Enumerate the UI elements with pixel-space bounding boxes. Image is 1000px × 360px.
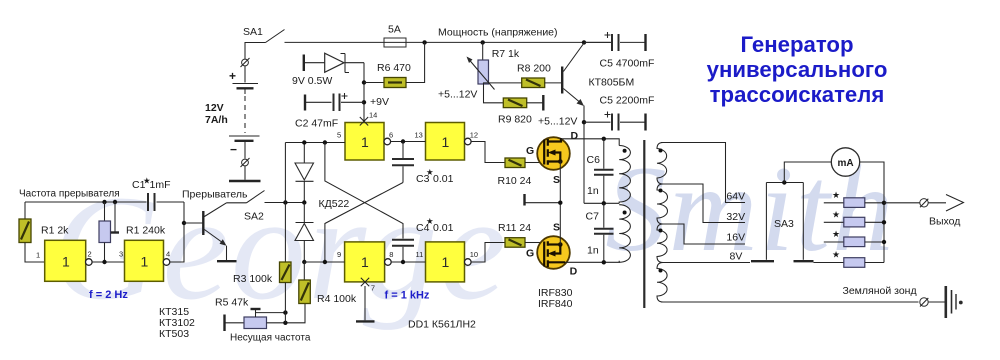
svg-text:R6 470: R6 470 — [377, 62, 411, 74]
title Генератор универсального трассоискателя — [707, 32, 888, 107]
svg-text:10: 10 — [470, 250, 478, 259]
svg-text:★: ★ — [832, 210, 840, 220]
svg-text:C2 47mF: C2 47mF — [295, 118, 338, 130]
junction C6 bottom / C7 top — [602, 201, 606, 205]
svg-text:1: 1 — [141, 254, 149, 270]
svg-text:Несущая частота: Несущая частота — [230, 333, 311, 344]
svg-text:R9 820: R9 820 — [498, 114, 532, 126]
wire secondary top tap to 64V contact — [661, 143, 745, 203]
svg-text:+5...12V: +5...12V — [538, 116, 577, 128]
switch SA1 — [243, 26, 285, 59]
junction SA2 wire / R3 — [283, 200, 287, 204]
wire collector to SA2 — [227, 202, 247, 204]
MOSFET VT4 IRF840 (bottom) — [526, 222, 578, 278]
gate DD1.2 — [119, 240, 170, 281]
wire SA2 to diode node — [265, 202, 305, 204]
svg-text:R7 1k: R7 1k — [492, 48, 520, 60]
svg-text:3: 3 — [119, 250, 123, 259]
svg-text:mA: mA — [837, 158, 853, 169]
transformer T1 primary winding upper half — [619, 146, 630, 204]
svg-text:+: + — [229, 69, 236, 83]
junction bus / output — [882, 201, 886, 205]
transformer T1 secondary section 3 — [657, 224, 667, 263]
svg-text:R1 240k: R1 240k — [126, 225, 166, 237]
wire battery dashed middle — [244, 89, 246, 94]
svg-text:2: 2 — [88, 250, 92, 259]
capacitor C7 1n — [586, 203, 614, 262]
resistor R3 100k — [233, 143, 291, 323]
svg-text:G: G — [526, 145, 534, 157]
wire cross-coupling pin5 to C4 — [325, 143, 403, 239]
junction SA3 top / meter — [782, 180, 786, 184]
svg-text:8V: 8V — [730, 251, 743, 263]
battery cell 2 — [229, 136, 260, 159]
svg-text:★: ★ — [832, 190, 840, 200]
svg-text:12: 12 — [470, 131, 478, 140]
svg-text:−: − — [230, 143, 237, 157]
diode VD1 KD522 — [295, 143, 314, 203]
pin 7 X mark and ground — [356, 278, 375, 322]
wire center tap — [584, 202, 619, 204]
switch SA3 — [751, 183, 814, 262]
transistor VT2 KT805BM — [562, 43, 634, 106]
junction C4 bottom — [401, 260, 405, 264]
wire 2Hz top rail y=202 — [25, 201, 147, 203]
junction rail/R6 — [422, 40, 426, 44]
svg-text:f = 2 Hz: f = 2 Hz — [89, 289, 128, 301]
svg-text:DD1 К561ЛН2: DD1 К561ЛН2 — [408, 319, 476, 331]
svg-text:6: 6 — [389, 131, 393, 140]
svg-text:R11 24: R11 24 — [498, 222, 531, 234]
svg-text:C7: C7 — [586, 211, 600, 223]
resistor R6 470 — [364, 42, 425, 87]
svg-text:КТ805БМ: КТ805БМ — [589, 77, 635, 89]
junction bus r3 — [882, 240, 886, 244]
svg-text:SA2: SA2 — [244, 211, 264, 223]
wire gate2 out to interrupter base — [170, 202, 184, 262]
resistor Rout4 — [814, 250, 885, 268]
resistor Rout3 — [824, 229, 884, 247]
capacitor C4 0.01 — [392, 216, 454, 262]
junction emitter/C5-2200 — [582, 120, 586, 124]
svg-text:R5 47k: R5 47k — [215, 297, 249, 309]
connector plug top of battery — [241, 58, 250, 67]
junction C3 bottom / pin9 — [323, 260, 327, 264]
junction bus r2 — [882, 220, 886, 224]
wire secondary bottom to ground probe — [661, 301, 919, 303]
connector ground probe — [920, 298, 945, 307]
svg-text:1n: 1n — [587, 245, 599, 257]
junction diode chain / pin9 wire — [302, 260, 306, 264]
svg-text:SA1: SA1 — [243, 26, 263, 38]
switch SA2 — [244, 191, 265, 223]
wire gate5 out to gate6 in — [391, 261, 426, 263]
wire drain VT4 to primary bottom — [565, 261, 619, 263]
labels IRF830 IRF840 — [538, 287, 573, 310]
battery GB1 12V 7A/h cell 1 — [229, 66, 258, 88]
capacitor C2 47mF — [295, 93, 364, 130]
meter PA1 mA — [831, 148, 859, 176]
svg-text:S: S — [553, 174, 560, 186]
svg-text:8: 8 — [389, 250, 393, 259]
svg-text:D: D — [571, 130, 579, 142]
svg-text:R10 24: R10 24 — [498, 175, 532, 187]
wire power rail (Мощность) y=42.4 — [285, 41, 612, 43]
capacitor C5 4700mF — [584, 32, 654, 70]
resistor Rout1 — [824, 190, 884, 207]
transformer core — [643, 140, 645, 308]
transistor VT1 interrupter — [182, 189, 248, 246]
svg-text:трассоискателя: трассоискателя — [710, 82, 885, 107]
svg-text:4: 4 — [166, 250, 170, 259]
svg-text:Прерыватель: Прерыватель — [182, 189, 248, 201]
svg-text:S: S — [553, 222, 560, 234]
svg-text:9: 9 — [337, 250, 341, 259]
zener diode VD 9V 0.5W — [292, 53, 364, 87]
svg-text:R3 100k: R3 100k — [233, 273, 273, 285]
capacitor C1 1mF — [132, 176, 184, 212]
capacitor C5 2200mF — [584, 95, 654, 131]
svg-text:R8 200: R8 200 — [517, 63, 551, 75]
gate DD1.5 (pins 9,8,7) — [337, 242, 393, 282]
svg-text:C5 2200mF: C5 2200mF — [600, 95, 655, 107]
svg-text:32V: 32V — [726, 211, 745, 223]
junction rail/R7 — [481, 40, 485, 44]
svg-text:1: 1 — [442, 134, 450, 150]
svg-text:+9V: +9V — [370, 96, 389, 108]
junction pin5/C4 branch — [323, 140, 327, 144]
svg-text:КД522: КД522 — [319, 198, 350, 210]
wire pin5 node — [285, 142, 345, 144]
junction pin5/diodes — [302, 140, 306, 144]
svg-text:1n: 1n — [587, 185, 599, 197]
transformer T1 secondary section 4 — [657, 263, 667, 303]
svg-text:универсального: универсального — [707, 57, 888, 82]
connector plug bottom of battery — [241, 158, 250, 167]
junction wiper / R3 line — [283, 310, 287, 314]
svg-text:1: 1 — [36, 251, 40, 260]
svg-text:1: 1 — [361, 134, 369, 150]
wire gate3 out to gate4 in — [390, 141, 425, 143]
svg-text:5A: 5A — [388, 24, 401, 36]
gate DD1.4 (pins 13,12) — [415, 123, 479, 161]
junction R1 240k bottom — [102, 260, 106, 264]
junction sources — [558, 201, 562, 205]
wire secondary tap to 16V contact — [661, 224, 745, 244]
svg-text:КТ503: КТ503 — [159, 328, 189, 340]
fuse FU 5A — [384, 24, 406, 48]
svg-text:Частота прерывателя: Частота прерывателя — [19, 189, 120, 200]
ground interrupter emitter — [217, 246, 237, 262]
svg-text:14: 14 — [369, 111, 377, 120]
resistor R10 24 — [498, 158, 541, 187]
svg-text:IRF840: IRF840 — [538, 298, 573, 310]
MOSFET VT3 IRF830 (top) — [526, 130, 579, 186]
pin 14 power X mark — [360, 111, 378, 126]
junction base tap — [182, 221, 186, 225]
capacitor C3 0.01 — [392, 142, 454, 186]
svg-text:★: ★ — [832, 229, 840, 239]
svg-text:Генератор: Генератор — [740, 32, 853, 57]
resistor R1 2k — [19, 202, 69, 262]
wire R7 to R9 — [484, 84, 504, 103]
transformer T1 primary winding lower half — [619, 205, 630, 263]
node +9V vertical wire — [363, 63, 365, 123]
potentiometer R7 1k — [467, 42, 520, 89]
svg-text:Земляной зонд: Земляной зонд — [843, 285, 917, 297]
junction +9V/R6 — [362, 80, 366, 84]
svg-text:5: 5 — [337, 131, 341, 140]
gate DD1.1 — [36, 240, 92, 281]
transformer T1 secondary section 2 — [657, 184, 668, 224]
svg-text:0.01: 0.01 — [433, 173, 454, 185]
wire pin9 node — [304, 261, 344, 263]
wire gate4 out to R10 — [471, 142, 505, 163]
resistor Rout2 — [824, 210, 884, 227]
transformer T1 secondary section 1 — [657, 143, 667, 185]
wire meter to output bus — [860, 162, 884, 263]
resistor R11 24 — [498, 222, 540, 247]
svg-text:R1 2k: R1 2k — [41, 225, 69, 237]
svg-text:12V: 12V — [205, 102, 224, 114]
svg-text:R4 100k: R4 100k — [317, 293, 357, 305]
svg-text:11: 11 — [416, 250, 424, 259]
wire R7 to R8 — [484, 83, 522, 84]
wire KT805 emitter down to center tap — [583, 106, 585, 204]
wire drain VT3 to primary top — [561, 139, 619, 146]
svg-text:7: 7 — [371, 284, 375, 293]
ground main (battery minus) — [229, 166, 261, 181]
svg-text:Мощность (напряжение): Мощность (напряжение) — [438, 27, 558, 39]
junction C6 top — [602, 137, 606, 141]
svg-text:1: 1 — [442, 254, 450, 270]
resistor R9 820 — [498, 95, 543, 126]
junction diodes / SA2 — [302, 200, 306, 204]
wire gate6 out to R11 — [471, 243, 505, 263]
junction C3 top — [401, 139, 405, 143]
svg-text:+5...12V: +5...12V — [438, 89, 477, 101]
gate DD1.6 (pins 11,10) — [416, 242, 479, 282]
junction pot wire / R3 line — [283, 321, 287, 325]
svg-text:SA3: SA3 — [774, 218, 794, 230]
svg-text:C5 4700mF: C5 4700mF — [600, 58, 655, 70]
wire common source node — [525, 162, 561, 245]
svg-text:f = 1 kHz: f = 1 kHz — [385, 290, 430, 302]
ground probe electrode — [946, 286, 963, 318]
wire pot right to R4 — [267, 304, 306, 323]
svg-text:D: D — [570, 266, 578, 278]
svg-text:★: ★ — [832, 250, 840, 260]
potentiometer R5 carrier frequency — [225, 309, 311, 344]
wire gate1 out to gate2 in — [92, 261, 125, 263]
wire secondary tap 8V to SA3 — [661, 262, 750, 264]
svg-text:9V 0.5W: 9V 0.5W — [292, 75, 332, 87]
svg-text:13: 13 — [415, 131, 423, 140]
output connector and arrow Выход — [884, 195, 964, 228]
capacitor C6 1n — [587, 139, 614, 204]
resistor R1 240k — [99, 202, 166, 262]
svg-text:1: 1 — [361, 254, 369, 270]
svg-text:64V: 64V — [726, 191, 745, 203]
svg-text:G: G — [526, 248, 534, 260]
svg-text:7A/h: 7A/h — [205, 114, 228, 126]
diode VD2 KD522 — [295, 198, 349, 262]
gate DD1.3 (pins 5,6,14) — [337, 123, 393, 161]
labels KT315 KT3102 KT503 — [159, 306, 195, 340]
resistor R4 100k — [299, 262, 357, 305]
svg-text:1: 1 — [62, 254, 70, 270]
wire secondary tap to 32V contact — [661, 184, 745, 223]
svg-text:Выход: Выход — [929, 216, 960, 228]
wire cross-coupling C3 to pin9 — [325, 183, 403, 263]
junction C7 bottom — [602, 260, 606, 264]
wire SA3 to meter — [784, 162, 831, 183]
wire base — [184, 222, 203, 224]
resistor R8 200 — [517, 63, 561, 88]
svg-text:0.01: 0.01 — [433, 222, 454, 234]
svg-text:16V: 16V — [726, 232, 745, 244]
junction +9V/C2 — [362, 100, 366, 104]
junction top rail / R1 240k — [102, 200, 106, 204]
svg-text:1mF: 1mF — [150, 179, 171, 191]
junction rail/KT805 collector/C5 — [582, 40, 586, 44]
svg-text:C6: C6 — [587, 154, 601, 166]
